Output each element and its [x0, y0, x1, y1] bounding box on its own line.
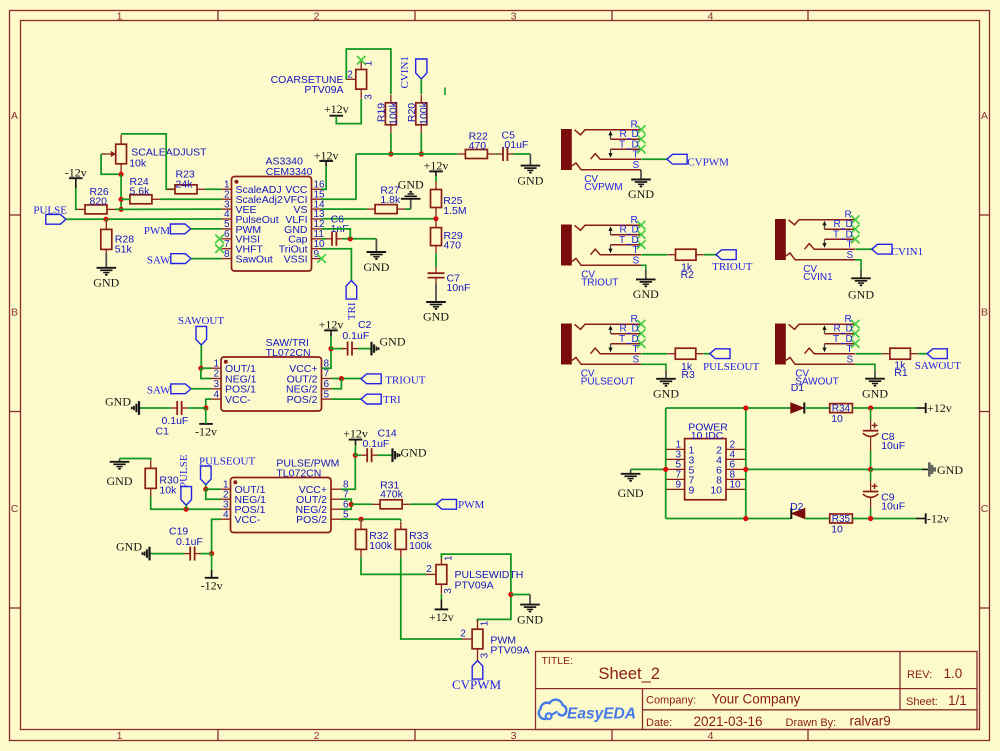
junction pot1 gnd: [508, 592, 513, 597]
ground GND R28: [93, 253, 119, 289]
svg-text:+12v: +12v: [429, 610, 454, 624]
svg-text:10: 10: [831, 523, 843, 535]
svg-text:-12v: -12v: [195, 425, 217, 439]
svg-text:3: 3: [480, 652, 491, 658]
junction pin10: [743, 516, 748, 521]
svg-text:1.8k: 1.8k: [380, 194, 401, 206]
svg-text:T: T: [633, 150, 639, 161]
connector jack CV SAWOUT: [775, 314, 860, 366]
ground GND jack TRIOUT: [633, 269, 659, 301]
junction C14: [353, 453, 358, 458]
svg-text:TRI: TRI: [346, 302, 358, 320]
resistor R23 24k: [167, 185, 205, 194]
wire +12v to C14: [355, 445, 361, 455]
ground GND C6: [363, 239, 389, 274]
wire pin5 bus: [341, 518, 401, 520]
stub mark: [444, 88, 446, 96]
capacitor C7 10nF: [428, 267, 445, 283]
svg-text:2: 2: [460, 629, 466, 640]
wire pin8 up: [322, 349, 332, 369]
junction R26 pin3: [119, 207, 124, 212]
junction C2: [328, 346, 333, 351]
resistor R25 1.5M: [431, 182, 442, 216]
ground GND jack CVPWM: [628, 170, 654, 201]
svg-text:GND: GND: [517, 173, 543, 187]
svg-text:470k: 470k: [380, 488, 404, 500]
svg-text:1: 1: [117, 730, 123, 742]
wire to R33: [400, 519, 402, 521]
label R20: [406, 101, 430, 125]
svg-text:S: S: [633, 355, 640, 366]
resistor R3 1k: [668, 348, 704, 359]
svg-text:T: T: [633, 245, 639, 256]
svg-text:VCC-: VCC-: [235, 514, 261, 526]
svg-text:S: S: [633, 160, 640, 171]
capacitor C1 0.1uF: [171, 401, 187, 415]
svg-text:10k: 10k: [129, 157, 147, 169]
svg-text:1: 1: [480, 620, 491, 626]
wire to R24: [121, 198, 130, 200]
junction pin7: [339, 376, 344, 381]
wire T to CVPWM: [641, 158, 667, 160]
svg-text:S: S: [633, 256, 640, 267]
wire +12v to pot pin3: [336, 99, 361, 124]
svg-text:10: 10: [710, 484, 722, 496]
label R30: [159, 475, 178, 497]
label SAWOUT: [795, 369, 839, 388]
power +12v PULSEWIDTH: [429, 599, 454, 624]
svg-text:PULSEOUT: PULSEOUT: [581, 377, 635, 388]
svg-text:B: B: [11, 307, 18, 319]
svg-text:GND: GND: [363, 260, 389, 274]
label PULSEWIDTH: [426, 555, 523, 594]
label C5: [502, 129, 529, 151]
label C2: [342, 319, 371, 342]
capacitor C2 0.1uF: [342, 342, 358, 356]
svg-text:R1: R1: [894, 367, 908, 379]
wire C6 to gnd: [342, 238, 376, 240]
svg-text:T: T: [847, 344, 853, 355]
label R31: [380, 480, 404, 501]
svg-text:TRIOUT: TRIOUT: [581, 278, 618, 289]
label C1: [156, 415, 189, 438]
svg-text:1: 1: [443, 555, 454, 561]
label R1: [894, 359, 908, 379]
wire to R28: [105, 219, 107, 221]
resistor R34 10: [830, 403, 853, 414]
junction pot wiper: [119, 172, 124, 177]
svg-text:9: 9: [314, 249, 320, 260]
wire C2 to gnd: [358, 348, 372, 350]
wire SAWOUT drop: [200, 345, 202, 368]
svg-text:PULSEOUT: PULSEOUT: [703, 361, 760, 373]
junction R20: [419, 151, 424, 156]
wire R31 to PWM: [410, 503, 436, 505]
svg-text:2: 2: [314, 730, 320, 742]
wire R26 to pin3: [115, 208, 222, 210]
svg-text:100k: 100k: [388, 101, 400, 125]
wire +12v to C2: [331, 336, 344, 349]
svg-text:0.1uF: 0.1uF: [342, 330, 369, 342]
ground GND R30: [107, 459, 133, 488]
svg-text:GND: GND: [93, 276, 119, 290]
svg-text:TL072CN: TL072CN: [276, 467, 321, 479]
svg-text:CVIN1: CVIN1: [891, 246, 923, 258]
net flag TRIOUT: [361, 374, 426, 386]
diode D1: [791, 403, 805, 414]
svg-text:4: 4: [223, 509, 229, 520]
label R3: [681, 361, 695, 381]
wire R32 to pot: [361, 557, 426, 574]
junction pin1 op2: [203, 487, 208, 492]
label R2: [681, 261, 695, 280]
wire S elbow: [641, 265, 646, 269]
svg-text:2: 2: [314, 10, 320, 22]
svg-text:4: 4: [708, 730, 714, 742]
potentiometer PULSEWIDTH PTV09A: [426, 555, 447, 594]
junction PULSE: [184, 507, 189, 512]
wire PWM to pin5: [191, 228, 222, 230]
wire right vertical: [745, 408, 747, 519]
svg-text:0.1uF: 0.1uF: [176, 536, 203, 548]
svg-text:GND: GND: [401, 446, 427, 460]
connector POWER 10 IDC: [666, 439, 746, 500]
svg-text:T: T: [833, 334, 839, 345]
wire pot1 loop: [441, 554, 511, 622]
net flag PULSE vertical: [181, 487, 192, 506]
svg-text:ralvar9: ralvar9: [850, 714, 891, 729]
svg-text:1: 1: [117, 10, 123, 22]
wire SAW to pin8: [191, 258, 222, 260]
label C7: [447, 273, 471, 295]
power -12v right: [916, 512, 949, 526]
capacitor C19 0.1uF: [184, 547, 200, 561]
wire CVIN1 to R20: [420, 79, 422, 94]
svg-text:TITLE:: TITLE:: [542, 655, 574, 667]
net flag PWM out: [436, 499, 484, 511]
wire +12v bus: [356, 153, 457, 155]
ground GND C7: [423, 284, 449, 324]
svg-text:EasyEDA: EasyEDA: [567, 705, 636, 722]
title block: [536, 652, 978, 730]
resistor R27 1.8k: [367, 205, 405, 214]
label TRIOUT: [581, 270, 618, 289]
wire vertical bus: [120, 174, 122, 209]
svg-text:TL072CN: TL072CN: [266, 347, 311, 359]
junction R19: [388, 151, 393, 156]
ground GND power: [618, 469, 644, 499]
junction R31: [349, 502, 354, 507]
no-connect pin 6: [215, 235, 224, 244]
wire PULSE to pin4: [66, 218, 222, 220]
power -12v TL072-2: [201, 570, 223, 592]
label PWM pot: [460, 620, 529, 658]
resistor R2 1k: [668, 249, 704, 260]
svg-text:D1: D1: [791, 382, 805, 394]
wire bottom power: [666, 518, 791, 520]
svg-text:CEM3340: CEM3340: [266, 166, 313, 178]
svg-text:10uF: 10uF: [881, 440, 905, 452]
wire pot wiper loop: [101, 154, 121, 174]
connector jack CV PULSEOUT: [561, 314, 646, 366]
wire SAW to pin3: [191, 388, 211, 390]
no-connect pin 7: [215, 244, 224, 253]
label SCALEADJUST: [129, 146, 207, 169]
capacitor C5 .01uF: [497, 147, 513, 161]
resistor R32 100k: [356, 521, 367, 557]
junction C19: [209, 551, 214, 556]
wire C8 stubs: [870, 408, 872, 420]
label C8: [881, 431, 905, 452]
ground GND jack PULSEOUT: [653, 370, 679, 400]
wire C19 to pin4: [201, 553, 212, 555]
wire pin12 jog: [322, 229, 351, 239]
wire pin6 jog 2: [341, 504, 351, 509]
net flag CVPWM: [667, 154, 729, 168]
svg-text:GND: GND: [618, 486, 644, 500]
label R32: [369, 530, 393, 552]
svg-text:GND: GND: [848, 287, 874, 301]
label POWER pins: [675, 422, 741, 497]
ground GND C1: [105, 395, 139, 415]
diode D2: [791, 508, 805, 519]
label R29: [444, 230, 463, 252]
junction pin5: [663, 467, 668, 472]
connector jack CV TRIOUT: [561, 215, 646, 267]
label R28: [115, 234, 134, 256]
svg-text:S: S: [847, 355, 854, 366]
svg-text:B: B: [981, 307, 988, 319]
wire C5 to gnd: [513, 153, 530, 155]
power +12v R25: [424, 159, 449, 176]
wire -12v to R26: [76, 188, 77, 209]
svg-text:R19: R19: [376, 103, 388, 122]
svg-text:5.6k: 5.6k: [130, 186, 151, 198]
wire T to CVIN1: [855, 248, 872, 250]
op IC U? AS3340 CEM3340: [222, 177, 322, 272]
label R19: [376, 101, 400, 125]
svg-text:PWM: PWM: [144, 225, 171, 237]
net flag SAW 2: [147, 384, 191, 397]
capacitor C6 1nF: [326, 232, 342, 246]
svg-text:CVPWM: CVPWM: [584, 182, 622, 193]
svg-text:51k: 51k: [115, 243, 133, 255]
resistor R28 51k: [101, 221, 112, 257]
junction R32: [358, 517, 363, 522]
svg-text:S: S: [847, 250, 854, 261]
wire R1 to SAWOUT: [918, 353, 927, 355]
label title texts: [542, 655, 967, 729]
svg-text:2021-03-16: 2021-03-16: [694, 714, 763, 729]
svg-text:GND: GND: [937, 463, 963, 477]
wire pin8 up 2: [341, 455, 355, 489]
wire D1 to R34: [806, 407, 829, 409]
power -12v left: [65, 165, 87, 188]
wire gnd to R30: [120, 459, 151, 461]
wire coarse wiper to R19: [346, 49, 391, 94]
svg-text:GND: GND: [633, 287, 659, 301]
wire pin5 to TRI: [332, 398, 362, 400]
ground GND pots: [517, 595, 543, 627]
connector jack CV CVPWM: [561, 119, 646, 171]
wire pot top to R23: [121, 134, 175, 189]
wire pin11 to C6: [322, 238, 327, 240]
wire R35 to -12v: [852, 518, 916, 520]
svg-text:10 IDC: 10 IDC: [691, 430, 724, 442]
wire T to R1: [855, 353, 882, 355]
svg-text:POS/2: POS/2: [296, 514, 327, 526]
ground GND flag right: [922, 462, 964, 477]
svg-text:T: T: [619, 235, 625, 246]
resistor R30 10k: [145, 460, 156, 496]
wire R19 to bus: [390, 133, 392, 154]
resistor R26 820: [77, 205, 115, 214]
svg-text:TRIOUT: TRIOUT: [712, 261, 753, 273]
wire R25 to R29: [435, 216, 437, 221]
potentiometer PWM PTV09A: [462, 620, 483, 659]
svg-text:100k: 100k: [418, 101, 430, 125]
svg-text:A: A: [11, 110, 18, 122]
net flag SAWOUT jack: [915, 349, 961, 372]
resistor R20 100k: [416, 95, 427, 133]
ground GND C2: [372, 334, 406, 355]
wire pot3 stem: [440, 594, 442, 599]
resistor R1 1k: [882, 348, 918, 359]
svg-text:24k: 24k: [176, 178, 194, 190]
wire R23 to pin1: [205, 188, 222, 190]
svg-text:820: 820: [90, 196, 108, 208]
svg-text:3: 3: [511, 730, 517, 742]
svg-text:SAW: SAW: [147, 254, 171, 266]
wire S elbow 2: [855, 260, 861, 270]
wire PULSE drop: [185, 505, 187, 509]
label C9: [881, 492, 905, 513]
svg-text:GND: GND: [517, 612, 543, 626]
resistor R29 470: [431, 220, 442, 254]
junction R24: [119, 197, 124, 202]
wire T to R3: [641, 353, 667, 355]
svg-text:C1: C1: [156, 426, 170, 438]
wire pin10 to TRI: [322, 249, 352, 281]
svg-text:T: T: [633, 344, 639, 355]
svg-text:PTV09A: PTV09A: [304, 84, 343, 96]
svg-text:0.1uF: 0.1uF: [363, 438, 390, 450]
wire PULSEOUT drop: [205, 485, 207, 490]
junction R25 VLFI: [433, 216, 438, 221]
svg-text:-12v: -12v: [201, 578, 223, 592]
svg-text:9: 9: [689, 484, 695, 496]
svg-text:GND: GND: [653, 386, 679, 400]
svg-text:C: C: [11, 503, 19, 515]
wire pin14 to R27: [322, 208, 368, 210]
svg-text:100k: 100k: [369, 540, 393, 552]
label PULSEOUT: [581, 369, 635, 388]
capacitor C8 10uF: [863, 423, 878, 437]
wire to gnd: [511, 594, 530, 596]
logo EasyEDA: [539, 700, 636, 723]
label R27: [380, 185, 401, 207]
svg-text:SAWOUT: SAWOUT: [915, 360, 961, 372]
svg-text:.01uF: .01uF: [502, 139, 529, 151]
svg-text:10uF: 10uF: [881, 501, 905, 513]
resistor R24 5.6k: [122, 195, 160, 204]
svg-text:4: 4: [213, 389, 219, 400]
wire pin4 down: [212, 519, 221, 553]
label AS3340 pins: [224, 155, 325, 265]
net flag PWM: [144, 224, 191, 237]
svg-text:10k: 10k: [159, 484, 177, 496]
wire left vertical: [665, 408, 667, 519]
svg-text:CVIN1: CVIN1: [399, 56, 411, 88]
svg-text:PTV09A: PTV09A: [455, 580, 494, 592]
svg-text:1.0: 1.0: [944, 666, 963, 681]
svg-text:2: 2: [426, 564, 432, 575]
wire to GND flag: [871, 468, 922, 470]
no-connect COARSETUNE pin1: [357, 56, 366, 65]
svg-text:Date:: Date:: [646, 717, 672, 729]
power +12v TL072-2: [343, 427, 368, 445]
wire R29 to C7: [435, 254, 437, 268]
svg-text:R3: R3: [681, 369, 695, 381]
power +12v VCC: [314, 148, 339, 166]
resistor R19 100k: [385, 95, 396, 133]
wire R24 to pin2: [160, 198, 222, 200]
label R33: [409, 530, 433, 552]
svg-text:D2: D2: [790, 501, 804, 513]
ground GND C19: [116, 540, 150, 561]
net flag TRI vertical: [346, 281, 358, 321]
svg-text:GND: GND: [380, 334, 406, 348]
svg-text:GND: GND: [107, 474, 133, 488]
wire gnd to C19: [150, 553, 184, 555]
net flag TRI: [361, 394, 401, 406]
svg-text:VSSI: VSSI: [284, 254, 308, 266]
junction C6 pin12: [348, 236, 353, 241]
label R22: [469, 130, 488, 152]
svg-text:2: 2: [347, 69, 353, 80]
svg-text:Sheet_2: Sheet_2: [599, 665, 660, 683]
connector jack CV CVIN1: [775, 209, 860, 261]
label R26: [90, 186, 109, 208]
junction C8 C9: [868, 467, 873, 472]
ground GND C5: [517, 154, 543, 187]
wire to R31: [351, 503, 372, 505]
power +12v right: [916, 401, 952, 415]
wire R27 to gnd: [405, 208, 411, 210]
wire +12v to pin16: [322, 166, 327, 189]
net flag CVIN1: [872, 244, 923, 257]
net flag PULSE: [33, 204, 67, 224]
op-amp U? TL072CN SAW/TRI: [211, 357, 332, 411]
label R25: [443, 195, 466, 217]
wire pin13 VLFI: [322, 218, 436, 220]
net flag TRIOUT jack: [712, 250, 753, 273]
svg-text:Company:: Company:: [646, 695, 696, 707]
svg-text:3: 3: [511, 10, 517, 22]
wire R30 to pin3: [151, 497, 221, 510]
power +12v coarsetune: [324, 102, 349, 116]
wire C14 to gnd: [378, 454, 393, 456]
svg-text:470: 470: [469, 140, 487, 152]
wire -12v stem: [205, 408, 207, 424]
svg-text:9: 9: [675, 480, 681, 491]
net flag CVIN1 top: [399, 56, 427, 88]
wire C1 to pin4: [188, 407, 206, 409]
wire pin7 to TRIOUT: [332, 378, 362, 380]
net flag PULSEOUT: [199, 456, 256, 485]
wire to R32: [360, 519, 362, 521]
svg-text:100k: 100k: [409, 540, 433, 552]
